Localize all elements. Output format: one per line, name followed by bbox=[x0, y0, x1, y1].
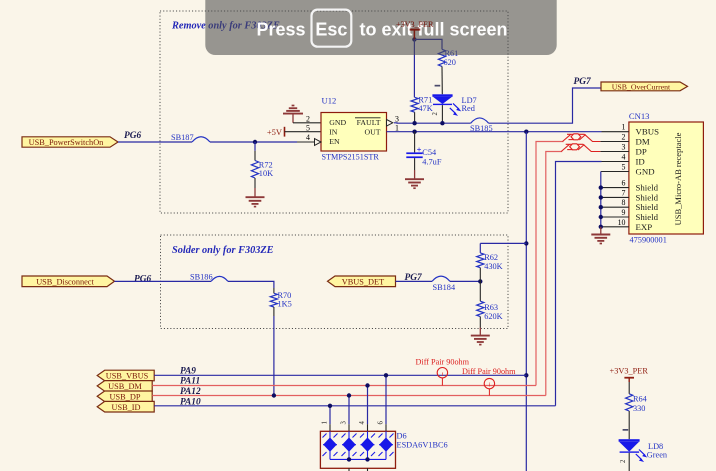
svg-text:i: i bbox=[442, 371, 444, 378]
diff pair marker 1 bbox=[416, 358, 470, 386]
port flag USB_PowerSwitchOn bbox=[22, 137, 118, 147]
wire USB_DM rail bbox=[152, 385, 536, 387]
svg-text:R64: R64 bbox=[633, 394, 648, 403]
port flag USB_OverCurrent bbox=[601, 82, 688, 91]
power port +3V3_PER top (over toast) bbox=[396, 20, 434, 39]
solder bridge SB185 bbox=[470, 118, 493, 133]
wire SB187 to EN pin bbox=[210, 141, 297, 143]
svg-text:+3V3_PER: +3V3_PER bbox=[396, 20, 434, 29]
svg-text:1: 1 bbox=[322, 421, 329, 424]
solder bridge SB184 bbox=[432, 276, 456, 292]
twisted pair crossover DM bbox=[563, 134, 601, 142]
svg-text:USB_Micro-AB receptacle: USB_Micro-AB receptacle bbox=[673, 132, 683, 225]
resistor R63 bbox=[477, 281, 503, 327]
svg-text:8: 8 bbox=[622, 198, 626, 207]
resistor R61 bbox=[438, 49, 458, 94]
svg-text:10K: 10K bbox=[259, 169, 273, 178]
svg-text:10: 10 bbox=[618, 218, 626, 227]
wire D6 pin1 from ID rail bbox=[329, 406, 331, 424]
wire +3V3 over to R61 bbox=[414, 39, 442, 49]
wire USB_PowerSwitchOn to SB187 bbox=[118, 141, 192, 143]
svg-text:VBUS: VBUS bbox=[636, 127, 660, 137]
node +3V3 junction bbox=[412, 37, 416, 41]
svg-text:47K: 47K bbox=[418, 104, 432, 113]
pin 1 VBUS stub bbox=[602, 131, 629, 133]
D6 diode cell 3 bbox=[360, 431, 375, 459]
wire R70 down to DP rail bbox=[273, 316, 275, 396]
svg-text:Press: Press bbox=[257, 20, 306, 40]
svg-text:Shield: Shield bbox=[636, 192, 659, 202]
svg-text:3: 3 bbox=[622, 143, 626, 152]
svg-text:USB_Disconnect: USB_Disconnect bbox=[36, 278, 94, 287]
node R70/DP bbox=[272, 393, 276, 397]
port flag VBUS_DET bbox=[328, 276, 396, 287]
svg-text:2: 2 bbox=[620, 459, 627, 463]
pin 4 ID stub bbox=[602, 161, 629, 163]
wire D6 pin4 from DM rail bbox=[367, 386, 369, 425]
solder bridge SB187 bbox=[171, 133, 210, 142]
pin 3 DP stub bbox=[600, 151, 629, 153]
svg-text:PG6: PG6 bbox=[124, 131, 141, 141]
svg-text:USB_VBUS: USB_VBUS bbox=[106, 372, 149, 381]
svg-text:5: 5 bbox=[306, 124, 310, 133]
D6 diode cell 1 bbox=[323, 431, 338, 459]
TVS array D6 ESDA6V1BC6 bbox=[320, 421, 447, 469]
port flag USB_VBUS bbox=[97, 370, 154, 381]
svg-text:DP: DP bbox=[636, 147, 647, 157]
svg-text:7: 7 bbox=[622, 188, 626, 197]
svg-text:4.7uF: 4.7uF bbox=[422, 158, 442, 167]
capacitor C54 bbox=[406, 132, 442, 170]
svg-text:4: 4 bbox=[306, 133, 310, 142]
svg-text:CN13: CN13 bbox=[629, 111, 650, 121]
ground below CN13 shield bbox=[591, 227, 610, 244]
wire SB185 to USB_OverCurrent bbox=[489, 88, 601, 123]
svg-text:Shield: Shield bbox=[636, 183, 659, 193]
solder bridge SB186 bbox=[190, 273, 228, 282]
svg-text:USB_PowerSwitchOn: USB_PowerSwitchOn bbox=[29, 138, 105, 147]
svg-text:U12: U12 bbox=[322, 95, 337, 105]
svg-text:330: 330 bbox=[633, 404, 645, 413]
wire VBUS_DET to SB184 bbox=[396, 280, 433, 282]
svg-text:IN: IN bbox=[329, 128, 338, 137]
port flag USB_ID bbox=[97, 401, 154, 412]
pin 6-10 shield stubs bbox=[601, 187, 629, 189]
resistor R62 bbox=[477, 243, 503, 281]
svg-text:620K: 620K bbox=[484, 312, 502, 321]
svg-text:D6: D6 bbox=[397, 432, 407, 441]
svg-text:SB184: SB184 bbox=[433, 283, 456, 292]
wire D6 pin5 stub down bbox=[367, 468, 369, 471]
svg-text:Green: Green bbox=[647, 450, 668, 459]
wire USB_Disconnect to SB186 bbox=[115, 280, 212, 282]
node OUT/VBUS vertical bbox=[524, 130, 528, 134]
svg-text:to exit full screen: to exit full screen bbox=[360, 20, 508, 40]
svg-text:430K: 430K bbox=[484, 262, 502, 271]
svg-text:C54: C54 bbox=[422, 148, 437, 157]
svg-text:6: 6 bbox=[622, 179, 626, 188]
svg-text:1K5: 1K5 bbox=[278, 300, 292, 309]
node FAULT/LD7 bbox=[440, 121, 444, 125]
svg-text:USB_OverCurrent: USB_OverCurrent bbox=[612, 82, 671, 91]
resistor R72 bbox=[251, 142, 273, 188]
wire USB_ID rail bbox=[154, 405, 555, 407]
wire GND pin bbox=[293, 122, 321, 124]
D6 diode cell 2 bbox=[342, 431, 357, 459]
svg-text:SB186: SB186 bbox=[190, 273, 213, 282]
svg-text:i: i bbox=[489, 382, 491, 389]
wire USB_VBUS rail bbox=[154, 374, 526, 376]
port flag USB_DM bbox=[97, 381, 152, 392]
dashed blanket box "Remove only for F303ZE" bbox=[160, 11, 508, 213]
svg-text:Shield: Shield bbox=[636, 212, 659, 222]
svg-text:ESDA6V1BC6: ESDA6V1BC6 bbox=[397, 441, 448, 450]
svg-text:+3V3_PER: +3V3_PER bbox=[610, 367, 649, 376]
LED LD8 bbox=[619, 429, 668, 471]
wire OUT row to CN13 VBUS bbox=[387, 131, 602, 133]
svg-text:+5V: +5V bbox=[267, 127, 283, 137]
wire DP vertical bbox=[546, 152, 562, 396]
node divider bbox=[478, 279, 482, 283]
wire DM vertical bbox=[536, 142, 564, 386]
svg-text:PG7: PG7 bbox=[574, 77, 591, 87]
pin 2 DM stub bbox=[600, 141, 629, 143]
wire ID vertical bbox=[556, 162, 602, 406]
svg-text:R63: R63 bbox=[484, 303, 498, 312]
svg-text:+: + bbox=[417, 145, 422, 155]
svg-text:GND: GND bbox=[636, 167, 655, 177]
wire USB_DP rail bbox=[152, 395, 546, 397]
svg-text:5: 5 bbox=[622, 163, 626, 172]
dashed blanket box "Solder only for F303ZE" bbox=[161, 235, 509, 329]
wire D6 pin2 stub down bbox=[348, 468, 350, 471]
svg-text:2: 2 bbox=[306, 114, 310, 123]
svg-text:Red: Red bbox=[462, 104, 476, 113]
svg-text:Shield: Shield bbox=[636, 202, 659, 212]
wire SB186 to R70 bbox=[228, 281, 274, 288]
node FAULT/R71 bbox=[412, 121, 416, 125]
resistor R70 bbox=[270, 288, 291, 316]
svg-text:2: 2 bbox=[622, 133, 626, 142]
svg-text:DM: DM bbox=[636, 137, 650, 147]
node VBUS rail bbox=[524, 373, 528, 377]
svg-text:1: 1 bbox=[622, 123, 626, 132]
svg-text:USB_DP: USB_DP bbox=[110, 393, 141, 402]
wire GND pin down shield chain bbox=[600, 172, 602, 229]
svg-text:USB_ID: USB_ID bbox=[111, 403, 140, 412]
resistor R64 bbox=[626, 382, 648, 439]
power port +3V3_PER bottom bbox=[610, 367, 649, 382]
svg-text:4: 4 bbox=[622, 153, 626, 162]
D6 diode cell 4 bbox=[379, 431, 394, 459]
diff pair marker 2 bbox=[462, 367, 516, 396]
svg-text:4: 4 bbox=[359, 421, 366, 425]
wire D6 common bus bbox=[330, 458, 386, 460]
resistor R71 bbox=[411, 96, 433, 124]
fullscreen overlay bbox=[205, 0, 556, 55]
pin 5 GND stub bbox=[601, 171, 629, 173]
svg-text:Esc: Esc bbox=[315, 20, 347, 40]
ground below C54 bbox=[405, 170, 424, 188]
svg-text:SB187: SB187 bbox=[171, 133, 194, 142]
wire D6 pin3 from DP rail bbox=[348, 396, 350, 425]
power port +5V bbox=[267, 127, 285, 137]
svg-text:EXP: EXP bbox=[636, 222, 653, 232]
svg-text:VBUS_DET: VBUS_DET bbox=[342, 278, 384, 287]
connector CN13 body bbox=[629, 111, 704, 245]
wire SB184 to divider node bbox=[450, 280, 480, 282]
LED LD7 bbox=[432, 85, 477, 123]
wire +3V3 down to R71 bbox=[413, 39, 415, 97]
svg-text:620: 620 bbox=[444, 58, 456, 67]
ground at U12 GND pin (earth up) bbox=[283, 106, 303, 123]
wire +5V to IN pin bbox=[285, 131, 322, 133]
node OUT/C54 bbox=[412, 130, 416, 134]
ground below R72 bbox=[246, 188, 265, 207]
svg-text:OUT: OUT bbox=[364, 128, 380, 137]
svg-text:Diff Pair 90ohm: Diff Pair 90ohm bbox=[416, 358, 470, 367]
svg-text:ID: ID bbox=[636, 157, 645, 167]
twisted pair crossover DP bbox=[561, 144, 600, 152]
svg-text:3: 3 bbox=[395, 114, 399, 123]
svg-text:3: 3 bbox=[341, 421, 348, 425]
EN input triangle bbox=[315, 139, 322, 146]
wire vertical VBUS net (OUT to bottom) bbox=[525, 132, 527, 471]
op-amp U12 STMPS2151STR body bbox=[306, 95, 399, 161]
power port +3V3_PER top bbox=[396, 20, 434, 39]
svg-text:EN: EN bbox=[329, 137, 340, 146]
port flag USB_DP bbox=[97, 391, 152, 402]
svg-text:PG6: PG6 bbox=[134, 275, 151, 285]
wire FAULT row bbox=[394, 122, 471, 124]
ground below R63 bbox=[471, 328, 490, 345]
wire R62 top to VBUS vertical bbox=[480, 242, 526, 244]
svg-text:USB_DM: USB_DM bbox=[108, 382, 142, 391]
svg-text:GND: GND bbox=[329, 118, 346, 127]
node VBUS/R62 top bbox=[524, 241, 528, 245]
svg-text:9: 9 bbox=[622, 208, 626, 217]
svg-text:Solder only for F303ZE: Solder only for F303ZE bbox=[172, 245, 274, 256]
port flag USB_Disconnect bbox=[22, 276, 115, 287]
svg-text:STMPS2151STR: STMPS2151STR bbox=[322, 152, 380, 161]
svg-text:475900001: 475900001 bbox=[630, 236, 667, 245]
svg-text:FAULT: FAULT bbox=[357, 118, 381, 127]
svg-text:Diff Pair 90ohm: Diff Pair 90ohm bbox=[462, 367, 516, 376]
node EN junction bbox=[253, 140, 257, 144]
svg-text:2: 2 bbox=[432, 112, 439, 116]
wire D6 pin6 from VBUS rail bbox=[385, 375, 387, 424]
FAULT output triangle bbox=[387, 120, 393, 127]
svg-text:R62: R62 bbox=[484, 253, 498, 262]
svg-text:6: 6 bbox=[378, 421, 385, 425]
